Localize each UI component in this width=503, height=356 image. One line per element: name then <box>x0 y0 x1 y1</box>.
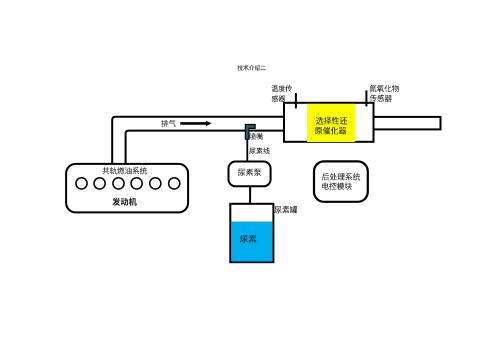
SCR catalyst element (yellow): 选择性还原催化器 <box>307 104 355 142</box>
label: 喷嘴 (nozzle) <box>250 133 263 140</box>
label: 共轨燃油系统 (common-rail fuel system) <box>102 167 147 174</box>
engine block (发动机) <box>66 164 188 213</box>
label: 温度传感器 (temperature sensor) <box>272 85 293 102</box>
label: 尿素泵 (urea pump) <box>238 169 261 177</box>
exhaust flow arrow <box>180 121 212 126</box>
aftertreatment ECU box (后处理系统电控模块) <box>314 161 368 201</box>
engine cylinder 3 <box>113 178 124 189</box>
temperature sensor probe <box>295 93 297 108</box>
engine cylinder 6 <box>169 178 180 189</box>
engine cylinder 2 <box>94 178 105 189</box>
wire: urea line (nozzle to pump) <box>246 139 248 162</box>
label: 发动机 (engine) <box>112 198 137 206</box>
wire: exhaust pipe inner wall (engine to catalyst) <box>126 131 284 164</box>
label: 选择性还原催化器 <box>315 117 348 134</box>
tailpipe <box>374 117 441 129</box>
catalyst housing (muffler body) <box>284 103 374 142</box>
engine cylinder 4 <box>131 178 142 189</box>
wire: pump to tank <box>249 186 251 204</box>
label: 尿素 (urea) <box>240 235 256 243</box>
wire: exhaust pipe outer wall (engine to catalyst) <box>112 117 284 164</box>
urea tank (尿素罐) <box>230 204 273 262</box>
urea liquid (blue) <box>231 222 272 262</box>
label: 排气 (exhaust) <box>161 120 176 127</box>
urea pump box (尿素泵) <box>229 162 271 187</box>
label: 尿素线 (urea line) <box>249 147 270 154</box>
urea injector nozzle (喷嘴) <box>245 124 255 139</box>
label: 氮氧化物传感器 (NOx sensor) <box>370 85 399 102</box>
label: 尿素罐 (urea tank) <box>275 206 298 213</box>
label: 后处理系统电控模块 (aftertreatment ECU) <box>322 173 360 190</box>
engine cylinder 1 <box>76 178 87 189</box>
NOx sensor probe <box>365 90 367 106</box>
engine cylinder 5 <box>150 178 161 189</box>
title text: 技术介绍二 <box>238 65 266 71</box>
